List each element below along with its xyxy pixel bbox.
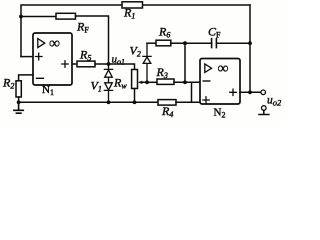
node junction R6 / CF / vertical [183, 41, 187, 45]
ground rail / R4 wire [19, 101, 158, 103]
svg-text:R5: R5 [79, 48, 91, 63]
resistor RF [56, 13, 76, 19]
op-amp N2 minus input mark [203, 80, 210, 82]
terminal uo2 upper circle [261, 90, 266, 95]
wire R6 to integrator input node [171, 42, 185, 44]
wire from RF to uo1 node (corner down) [76, 16, 109, 64]
svg-text:V1: V1 [91, 79, 102, 94]
wire right vertical from top wire down to uo2 output node [249, 5, 251, 92]
wire uo1 node line to Rw top [95, 64, 135, 70]
svg-text:uo1: uo1 [112, 54, 126, 67]
capacitor CF wire right [217, 42, 250, 44]
wire top feedback from uo2 node to N1 + input node [21, 5, 250, 57]
svg-text:CF: CF [208, 25, 221, 40]
diode V1 lower (pointing down, cathode bar down) [104, 77, 112, 102]
op-amp N2 box [200, 59, 240, 105]
terminal uo2 lower circle [262, 106, 267, 111]
node junction on left vertical at RF branch [19, 15, 23, 19]
diode V2 (pointing up, cathode bar up) [143, 43, 151, 82]
wire RF branch horizontal [21, 16, 56, 18]
diode V1 upper (cathode bar up, pointing up) [104, 64, 112, 77]
resistor R6 [156, 40, 171, 46]
potentiometer Rw wiper arrow [138, 81, 147, 84]
wire R4 right to N2 plus input [176, 101, 200, 103]
node junction R2 / ground rail [17, 100, 21, 104]
ground tick under lower terminal [259, 110, 269, 114]
wire R2 bottom to ground rail [18, 97, 20, 102]
wire Rw bottom to ground rail [134, 89, 136, 103]
ground symbol [14, 102, 23, 113]
op-amp N2 output plus mark [230, 89, 236, 95]
wire V2 top to R6 [147, 42, 156, 44]
node junction Rw bottom / ground rail [133, 100, 137, 104]
op-amp N1 output plus mark [62, 61, 68, 67]
svg-text:R2: R2 [2, 76, 14, 91]
resistor R3 [157, 79, 174, 84]
svg-text:N1: N1 [42, 84, 54, 97]
svg-text:∞: ∞ [218, 60, 229, 77]
wire R2 to N1 inverting input [19, 75, 33, 81]
wire R3 node to N2 inverting input [147, 81, 157, 83]
wire N1 noninverting input [21, 56, 33, 58]
op-amp N2 triangle symbol [205, 64, 212, 73]
op-amp N1 triangle symbol [38, 39, 45, 48]
resistor R4 [158, 100, 176, 106]
wire vertical node to R3 wire [184, 43, 186, 82]
op-amp N2 plus input mark [203, 97, 209, 103]
wire N1 output to R5 [72, 63, 77, 65]
capacitor CF plates [212, 39, 217, 48]
svg-text:R4: R4 [161, 104, 173, 119]
node junction V1 bottom / ground rail [107, 100, 111, 104]
node junction V2 bottom / wiper / R3 [145, 80, 149, 84]
svg-text:∞: ∞ [49, 35, 60, 52]
wire N2 output to uo2 terminal [240, 91, 261, 93]
potentiometer Rw body [132, 70, 138, 89]
node junction N2 output / right vertical [248, 90, 252, 94]
resistor R2 [16, 81, 21, 97]
svg-text:RF: RF [76, 20, 89, 35]
svg-text:R3: R3 [156, 65, 168, 80]
svg-text:R6: R6 [158, 25, 170, 40]
op-amp N1 plus input mark [36, 53, 43, 60]
svg-text:uo2: uo2 [267, 95, 282, 108]
op-amp N1 minus input mark [37, 77, 44, 79]
resistor R1 [122, 2, 143, 8]
node junction CF / right vertical [248, 41, 252, 45]
wire vertical R3 node down to R4 wire [191, 82, 193, 102]
svg-text:V2: V2 [130, 44, 141, 59]
svg-text:N2: N2 [214, 107, 226, 120]
node junction on R3 output wire [183, 80, 187, 84]
op-amp N1 box [33, 33, 72, 85]
resistor R5 [77, 61, 95, 67]
wire R3 right to N2 [174, 81, 200, 83]
svg-text:Rw: Rw [113, 76, 127, 91]
capacitor CF wire left [185, 42, 211, 44]
node junction uo1 / V1 / RF [107, 62, 111, 66]
